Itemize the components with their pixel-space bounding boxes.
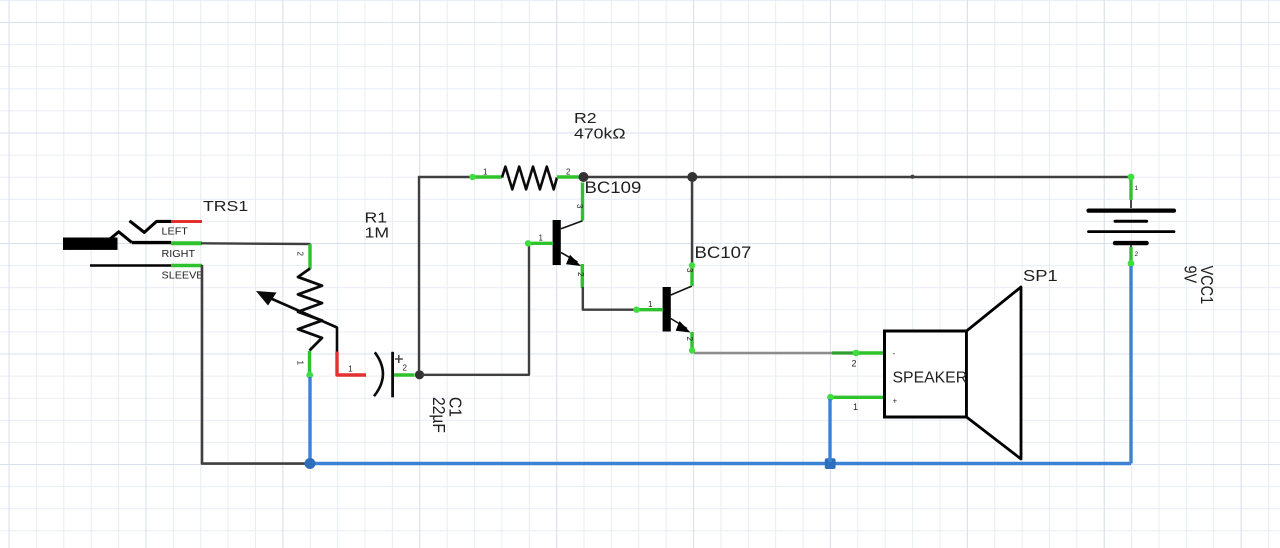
resistor R2 pin 1 green stub: [472, 175, 502, 178]
svg-text:R2: R2: [574, 110, 597, 126]
TRS1 tip spring (LEFT contact): [130, 221, 172, 233]
svg-text:LEFT: LEFT: [162, 227, 189, 238]
node battery pin1 green dot: [1128, 174, 1135, 181]
svg-text:2: 2: [685, 337, 694, 342]
TRS1 pin SLEEVE green stub: [171, 264, 202, 267]
node R2 pin1 green dot: [469, 174, 475, 180]
svg-text:SP1: SP1: [1023, 267, 1058, 284]
svg-text:22µF: 22µF: [429, 397, 449, 433]
node junction BC107 collector rail: [687, 172, 697, 182]
svg-text:2: 2: [852, 359, 857, 369]
svg-text:BC109: BC109: [585, 178, 642, 197]
svg-text:+: +: [893, 397, 898, 406]
transistor Q2 BC107: [663, 286, 692, 333]
TRS1 pin LEFT red stub: [171, 220, 202, 223]
svg-text:3: 3: [575, 204, 584, 209]
node top rail joint dot: [910, 175, 914, 179]
svg-text:-: -: [893, 349, 896, 358]
wire speaker pin1 blue to ground: [828, 399, 831, 462]
speaker SP1: [885, 287, 1022, 459]
svg-text:2: 2: [296, 252, 305, 257]
wire TRS SLEEVE down and along bottom to ground node: [202, 266, 308, 464]
svg-text:SLEEVE: SLEEVE: [162, 271, 204, 282]
svg-text:SPEAKER: SPEAKER: [893, 370, 968, 387]
capacitor C1 plus mark: [395, 355, 403, 363]
BC107 emitter green pin: [690, 332, 693, 352]
node battery pin2 green dot: [1128, 260, 1135, 267]
resistor R2 pin 2 green stub: [557, 175, 583, 178]
svg-text:2: 2: [576, 272, 585, 277]
node junction R2 collector: [579, 172, 589, 182]
TRS1 RIGHT lead: [132, 241, 171, 244]
wire ground blue from pot to rail: [308, 377, 311, 462]
svg-text:9V: 9V: [1180, 266, 1200, 284]
svg-text:470kΩ: 470kΩ: [574, 126, 626, 142]
capacitor C1 pin 2 green stub: [394, 373, 415, 376]
wire junction to BC109 base riser: [423, 244, 529, 375]
wire TRS RIGHT to potentiometer top: [202, 242, 310, 245]
BC109 collector green pin: [581, 183, 584, 221]
battery VCC1: [1089, 199, 1175, 248]
battery pin 2 green: [1129, 247, 1132, 265]
wire top rail left of R2: [419, 176, 472, 178]
wire pot wiper red to C1: [337, 352, 366, 376]
svg-text:TRS1: TRS1: [203, 199, 248, 215]
node pot bottom green dot: [306, 372, 313, 379]
transistor Q1 BC109: [553, 220, 583, 266]
svg-text:2: 2: [566, 168, 571, 177]
resistor R2 zigzag: [502, 167, 557, 190]
wire R2 left riser down to junction: [418, 177, 420, 371]
svg-text:1: 1: [539, 234, 544, 243]
TRS1 SLEEVE lead: [90, 264, 171, 267]
jack TRS1 plug body: [63, 232, 132, 250]
svg-text:2: 2: [403, 364, 408, 373]
wire speaker pin1 green: [830, 396, 884, 399]
node BC107 emitter green dot: [689, 347, 695, 353]
BC109 emitter green pin: [581, 264, 584, 288]
node BC107 base green dot: [633, 307, 639, 313]
BC107 base green pin: [636, 308, 664, 311]
svg-text:BC107: BC107: [695, 243, 752, 262]
node BC107 collector green dot: [689, 262, 695, 268]
wire BC107 emitter to speaker gray: [694, 352, 834, 354]
potentiometer R1 zigzag body: [298, 269, 322, 351]
wire BC109 emitter to BC107 base: [583, 288, 635, 310]
svg-text:1M: 1M: [365, 225, 390, 241]
wire speaker pin2 green dark part: [832, 351, 856, 354]
potentiometer R1 wiper arrow: [256, 291, 337, 352]
node speaker pin1 green dot: [827, 394, 834, 401]
svg-text:R1: R1: [365, 210, 388, 226]
wire speaker pin2 green bright part: [856, 351, 884, 354]
node ground junction left blue dot: [305, 458, 316, 469]
BC109 base green pin: [528, 242, 554, 245]
node ground junction speaker blue dot: [825, 458, 836, 469]
svg-text:1: 1: [853, 402, 858, 412]
svg-text:2: 2: [1135, 251, 1139, 258]
node C1 output junction: [415, 370, 424, 379]
wire ground blue bottom rail: [310, 462, 1131, 465]
potentiometer R1 top pin green: [308, 244, 311, 269]
node BC109 base green dot: [525, 240, 531, 246]
TRS1 pin RIGHT green stub: [171, 241, 202, 245]
battery pin 1 green: [1129, 177, 1132, 200]
wire battery to ground blue: [1129, 266, 1132, 464]
capacitor C1 curved plate: [374, 352, 383, 396]
capacitor C1 straight plate: [391, 352, 394, 398]
BC107 collector green pin: [690, 264, 693, 286]
wire BC107 collector riser: [691, 182, 693, 264]
svg-text:1: 1: [483, 168, 488, 177]
svg-text:RIGHT: RIGHT: [162, 249, 196, 260]
wire top rail right of R2 to battery: [588, 176, 1131, 178]
node speaker pin2 green dot: [853, 350, 860, 357]
potentiometer R1 bottom pin green: [308, 351, 311, 377]
svg-text:1: 1: [648, 300, 653, 309]
svg-text:3: 3: [685, 268, 694, 273]
svg-text:1: 1: [296, 361, 305, 366]
svg-text:1: 1: [348, 364, 353, 374]
svg-text:1: 1: [1135, 185, 1139, 192]
